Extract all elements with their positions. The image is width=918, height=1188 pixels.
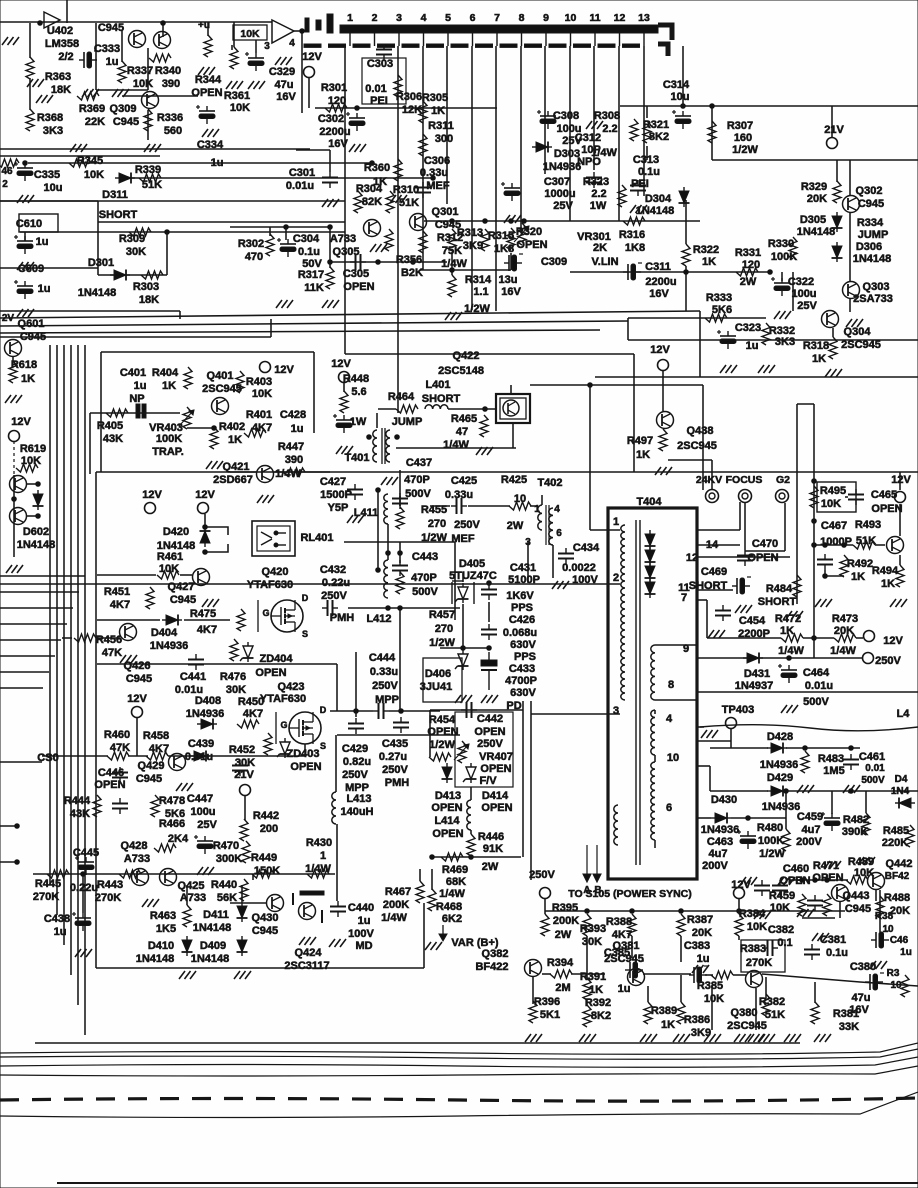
svg-text:C945: C945 [126,673,152,685]
wire [784,503,786,551]
wire big box top [96,471,918,473]
svg-text:R483: R483 [818,753,844,765]
wire pin4 [697,740,731,742]
ground [758,1034,775,1042]
svg-text:S: S [320,741,326,751]
svg-text:Q303: Q303 [863,281,890,293]
svg-text:D602: D602 [23,526,49,538]
ground [248,81,265,89]
ground [758,365,775,373]
wire [399,470,401,506]
svg-text:1K: 1K [881,578,895,590]
junction [399,709,404,714]
wire [738,936,740,940]
capacitor C429 [348,718,364,734]
wire horizontal bus A [0,148,310,150]
wire [454,542,456,620]
transistor Q380 [746,971,763,988]
svg-text:1/4W: 1/4W [275,468,301,480]
junction [630,909,635,914]
svg-text:R460: R460 [104,729,130,741]
svg-text:D411: D411 [203,909,229,921]
capacitor C425 [451,498,467,514]
transistor Q424 [299,903,316,920]
page line 1b [0,1049,918,1059]
shield bar segment [525,44,542,47]
wire [97,574,156,576]
wire feed 2 [796,404,798,604]
ground [692,965,709,973]
wire [462,604,464,648]
resistor R308 [630,119,638,141]
wire [147,110,149,140]
svg-text:25V: 25V [797,300,817,312]
svg-text:C307: C307 [544,176,570,188]
svg-text:12V: 12V [11,416,31,428]
resistor R306 [394,75,402,97]
wire C305 row [330,261,447,263]
svg-text:R311: R311 [428,120,454,132]
resistor R459 [798,894,806,916]
ground [299,937,316,945]
terminal 250V [540,888,551,899]
wire left bus entry [0,591,79,593]
transistor Q303 [843,282,860,299]
svg-text:1/2W: 1/2W [464,303,490,315]
junction [328,260,333,265]
wire [423,903,425,968]
wire [899,555,901,565]
svg-text:1K8: 1K8 [625,242,645,254]
wire [802,917,835,919]
resistor R457 [396,572,404,594]
svg-text:SHORT: SHORT [422,393,461,405]
resistor R452 [264,733,272,755]
op-amp U1 (U402) triangle [44,12,60,28]
svg-text:R466: R466 [159,818,185,830]
svg-text:OPEN: OPEN [191,87,222,99]
svg-text:R318: R318 [803,340,829,352]
svg-text:C322: C322 [788,276,814,288]
svg-text:12: 12 [614,12,626,24]
svg-text:250V: 250V [342,769,368,781]
junction [746,816,751,821]
diode D306 [832,242,843,262]
svg-text:OPEN: OPEN [290,761,321,773]
junction [450,219,455,224]
ground [27,79,44,87]
wire section border [595,376,918,378]
svg-text:PMH: PMH [385,777,410,789]
svg-text:1N4148: 1N4148 [193,922,232,934]
wire [530,505,538,507]
wire [879,890,881,932]
ground [322,300,339,308]
wire [865,791,867,813]
svg-text:C335: C335 [34,169,60,181]
svg-text:R444: R444 [64,795,91,807]
wire [98,637,120,639]
ground [504,215,521,223]
svg-text:L411: L411 [354,507,378,519]
capacitor C442 [461,702,477,718]
resistor R401 [244,429,266,437]
svg-text:10K: 10K [821,498,841,510]
wire [82,874,84,913]
resistor R493 [853,541,875,549]
svg-text:1u: 1u [134,380,147,392]
ground [349,144,366,152]
wire [62,637,72,639]
svg-text:2K4: 2K4 [168,833,189,845]
svg-text:20K: 20K [834,625,854,637]
resistor R465 [480,415,488,437]
wire [168,755,240,757]
svg-text:MEF: MEF [426,180,450,192]
svg-text:D406: D406 [425,668,451,680]
resistor R317 [326,267,334,289]
wire [0,200,98,202]
resistor R455 [396,507,404,529]
resistor R430 [307,870,329,878]
capacitor C307 [501,182,520,201]
inductor L412 [384,560,388,598]
arrow VAR [442,925,444,937]
svg-text:630V: 630V [510,687,536,699]
svg-text:C444: C444 [369,652,396,664]
svg-text:R313: R313 [457,227,483,239]
resistor R483 [801,751,809,773]
resistor R320 [507,228,515,250]
wire [586,1000,588,1006]
svg-text:2SC945: 2SC945 [841,339,881,351]
svg-text:D303: D303 [554,148,580,160]
capacitor C443 [392,560,408,576]
resistor R331 [736,268,758,276]
svg-text:C311: C311 [645,261,671,273]
svg-text:56K: 56K [217,892,237,904]
terminal 24KV [706,490,719,503]
terminal 21V [240,785,251,796]
capacitor C470 [737,550,753,566]
transistor Q601 [5,340,22,357]
svg-text:30K: 30K [582,936,602,948]
connector right bracket [658,25,672,56]
svg-text:10u: 10u [44,182,63,194]
svg-text:270K: 270K [746,957,772,969]
transistor [129,31,146,48]
svg-text:0.22u: 0.22u [70,882,98,894]
transistor Q421 [257,466,274,483]
capacitor C302 [346,112,365,131]
svg-text:C323: C323 [735,322,761,334]
svg-text:Y5P: Y5P [328,502,349,514]
wire [542,973,551,975]
svg-text:0.01u: 0.01u [185,751,213,763]
svg-text:1N4936: 1N4936 [762,801,801,813]
wire [709,766,711,791]
wire R445 row [33,873,335,875]
wire big box left [95,472,97,968]
wire [13,475,15,557]
svg-text:10K: 10K [84,169,104,181]
svg-text:OPEN: OPEN [474,726,505,738]
resistor R454 [429,753,451,761]
svg-text:0.1u: 0.1u [298,246,320,258]
svg-text:OPEN: OPEN [747,552,778,564]
inductor L411 [384,494,388,524]
svg-text:30K: 30K [126,246,146,258]
inductor [538,505,542,530]
svg-text:68K: 68K [446,876,466,888]
wire [269,227,271,236]
svg-text:R464: R464 [388,391,415,403]
svg-text:300: 300 [435,133,453,145]
resistor R405 [106,409,128,417]
svg-text:Q304: Q304 [844,326,872,338]
svg-text:140uH: 140uH [340,806,373,818]
ground [112,89,129,97]
svg-text:R450: R450 [238,696,264,708]
shield bar segment [378,44,395,47]
svg-text:8K2: 8K2 [649,131,669,143]
svg-text:C945: C945 [858,198,884,210]
svg-text:C302: C302 [318,113,344,125]
resistor R619 [16,464,38,472]
svg-text:PPS: PPS [514,651,536,663]
resistor R313 [448,229,456,251]
diode D411 [237,902,248,922]
ground [2,37,19,45]
capacitor C445 [75,856,94,875]
svg-text:47u: 47u [275,79,294,91]
svg-text:1K: 1K [702,256,716,268]
wire [128,755,148,757]
shield bar segment [598,44,615,47]
capacitor [807,895,823,911]
svg-text:R356: R356 [396,254,422,266]
wire [711,106,713,160]
junction [823,574,828,579]
svg-text:A733: A733 [124,853,150,865]
svg-text:R463: R463 [150,910,176,922]
diode D303 [532,142,552,153]
svg-text:R331: R331 [735,247,761,259]
svg-text:ZD403: ZD403 [286,748,319,760]
ground [774,311,791,319]
svg-text:C945: C945 [252,925,278,937]
wire [252,874,254,880]
wire pin8 long [697,691,918,693]
resistor R388 [628,914,636,936]
svg-text:OPEN: OPEN [255,667,286,679]
capacitor C428 [333,414,352,433]
ground [673,1034,690,1042]
junction [430,855,435,860]
svg-text:4K7: 4K7 [197,624,217,636]
wire Q422 collector row [530,384,703,386]
svg-text:2W: 2W [740,276,757,288]
resistor R301 [325,104,347,112]
wire [845,496,848,498]
wire [685,266,687,311]
svg-text:5TUZ47C: 5TUZ47C [449,570,497,582]
wire [336,664,338,711]
junction [81,872,86,877]
svg-text:0.0022: 0.0022 [562,562,596,574]
ground [778,877,795,885]
capacitor C446 [112,767,128,783]
capacitor C440 [330,901,346,917]
junction [300,29,305,34]
svg-text:C312: C312 [575,132,601,144]
wire [377,490,379,570]
svg-text:C46: C46 [890,935,909,946]
svg-text:R493: R493 [855,519,881,531]
svg-text:D430: D430 [711,794,737,806]
svg-text:C610: C610 [16,218,42,230]
svg-text:8: 8 [668,679,674,691]
ground [5,395,22,403]
wire [781,272,783,281]
svg-text:R458: R458 [143,730,169,742]
svg-text:FOCUS: FOCUS [726,474,763,486]
wire [24,232,26,241]
ground [525,1034,542,1042]
wire left bus entry [0,607,73,609]
resistor R339 [139,174,161,182]
svg-text:JUMP: JUMP [858,229,889,241]
ground [197,867,214,875]
wire from connector pin x644 [643,46,645,196]
junction [849,746,854,751]
box VR407 [455,712,513,787]
resistor R332 [762,323,770,345]
ground [640,1034,657,1042]
svg-text:Q428: Q428 [121,840,148,852]
junction [36,482,41,487]
svg-text:D: D [302,593,309,603]
svg-text:OPEN: OPEN [480,763,511,775]
svg-text:2SC945: 2SC945 [677,440,717,452]
wire [875,544,885,546]
svg-text:C443: C443 [412,551,438,563]
wire R345 row [28,162,372,164]
svg-text:R363: R363 [45,71,71,83]
svg-text:R339: R339 [135,164,161,176]
svg-text:L412: L412 [366,613,391,625]
junction [328,225,333,230]
wire [294,30,302,32]
ground [202,129,219,137]
shield bar segment [427,44,444,47]
wire [186,885,188,905]
junction [15,860,20,865]
inductor [651,762,655,840]
capacitor C427 [347,484,363,500]
svg-text:C383: C383 [684,940,710,952]
junction [38,21,43,26]
diode D305 [832,212,843,232]
terminal 12V [9,431,20,442]
diode HV [645,530,656,550]
svg-text:C437: C437 [406,457,432,469]
svg-text:0.068u: 0.068u [503,627,537,639]
svg-text:C465: C465 [871,489,897,501]
svg-text:0.1u: 0.1u [638,166,660,178]
wire pin7 [697,599,707,601]
wire pin6 [697,817,711,819]
wire [147,48,149,90]
wire [387,524,389,560]
box R383 [741,940,785,972]
terminal 12V [304,67,315,78]
svg-text:3JU41: 3JU41 [420,681,452,693]
MOSFET Q420 [271,600,303,632]
terminal 12V [895,492,906,503]
wire from connector pin x447 [446,46,448,204]
diode D304 [679,187,690,207]
resistor R303 [141,271,163,279]
wire long bus A [0,311,700,318]
wire [335,735,337,792]
wire left bus entry [0,687,43,689]
svg-text:C460: C460 [783,863,809,875]
svg-text:2SC945: 2SC945 [727,1020,767,1032]
svg-text:C309: C309 [541,256,567,268]
wire [205,527,228,535]
svg-text:10K: 10K [230,102,250,114]
wire [655,644,697,646]
wire [532,977,534,1004]
wire row B [337,734,460,736]
wire long bus C [0,321,628,326]
svg-text:220K: 220K [882,837,908,849]
diode HV [645,546,656,566]
svg-text:10: 10 [565,12,577,24]
wire rail 2 [712,159,918,161]
wire [702,385,704,490]
wire corner [179,311,181,319]
ground [257,495,274,503]
page line 3 [0,1066,918,1076]
wire [710,790,768,792]
svg-text:1: 1 [613,516,619,528]
wire [89,413,91,474]
svg-text:TRAP.: TRAP. [152,446,184,458]
svg-text:30K: 30K [226,684,246,696]
svg-text:43K: 43K [103,433,123,445]
wire [329,227,331,268]
svg-text:1/2W: 1/2W [429,739,455,751]
diode D428 [767,743,787,754]
svg-text:1N4936: 1N4936 [186,708,225,720]
resistor R394 [550,970,572,978]
box R495 [817,482,856,512]
wire [711,985,713,1030]
resistor R450 [237,720,259,728]
resistor [419,231,427,253]
wire [710,747,768,749]
diode HV [645,578,656,598]
wire [633,354,635,472]
terminal 12V [658,360,669,371]
wire [627,318,629,340]
resistor R458 [146,752,168,760]
svg-text:TP403: TP403 [722,704,754,716]
wire left bus vertical [49,345,51,885]
resistor R396 [529,1001,537,1023]
